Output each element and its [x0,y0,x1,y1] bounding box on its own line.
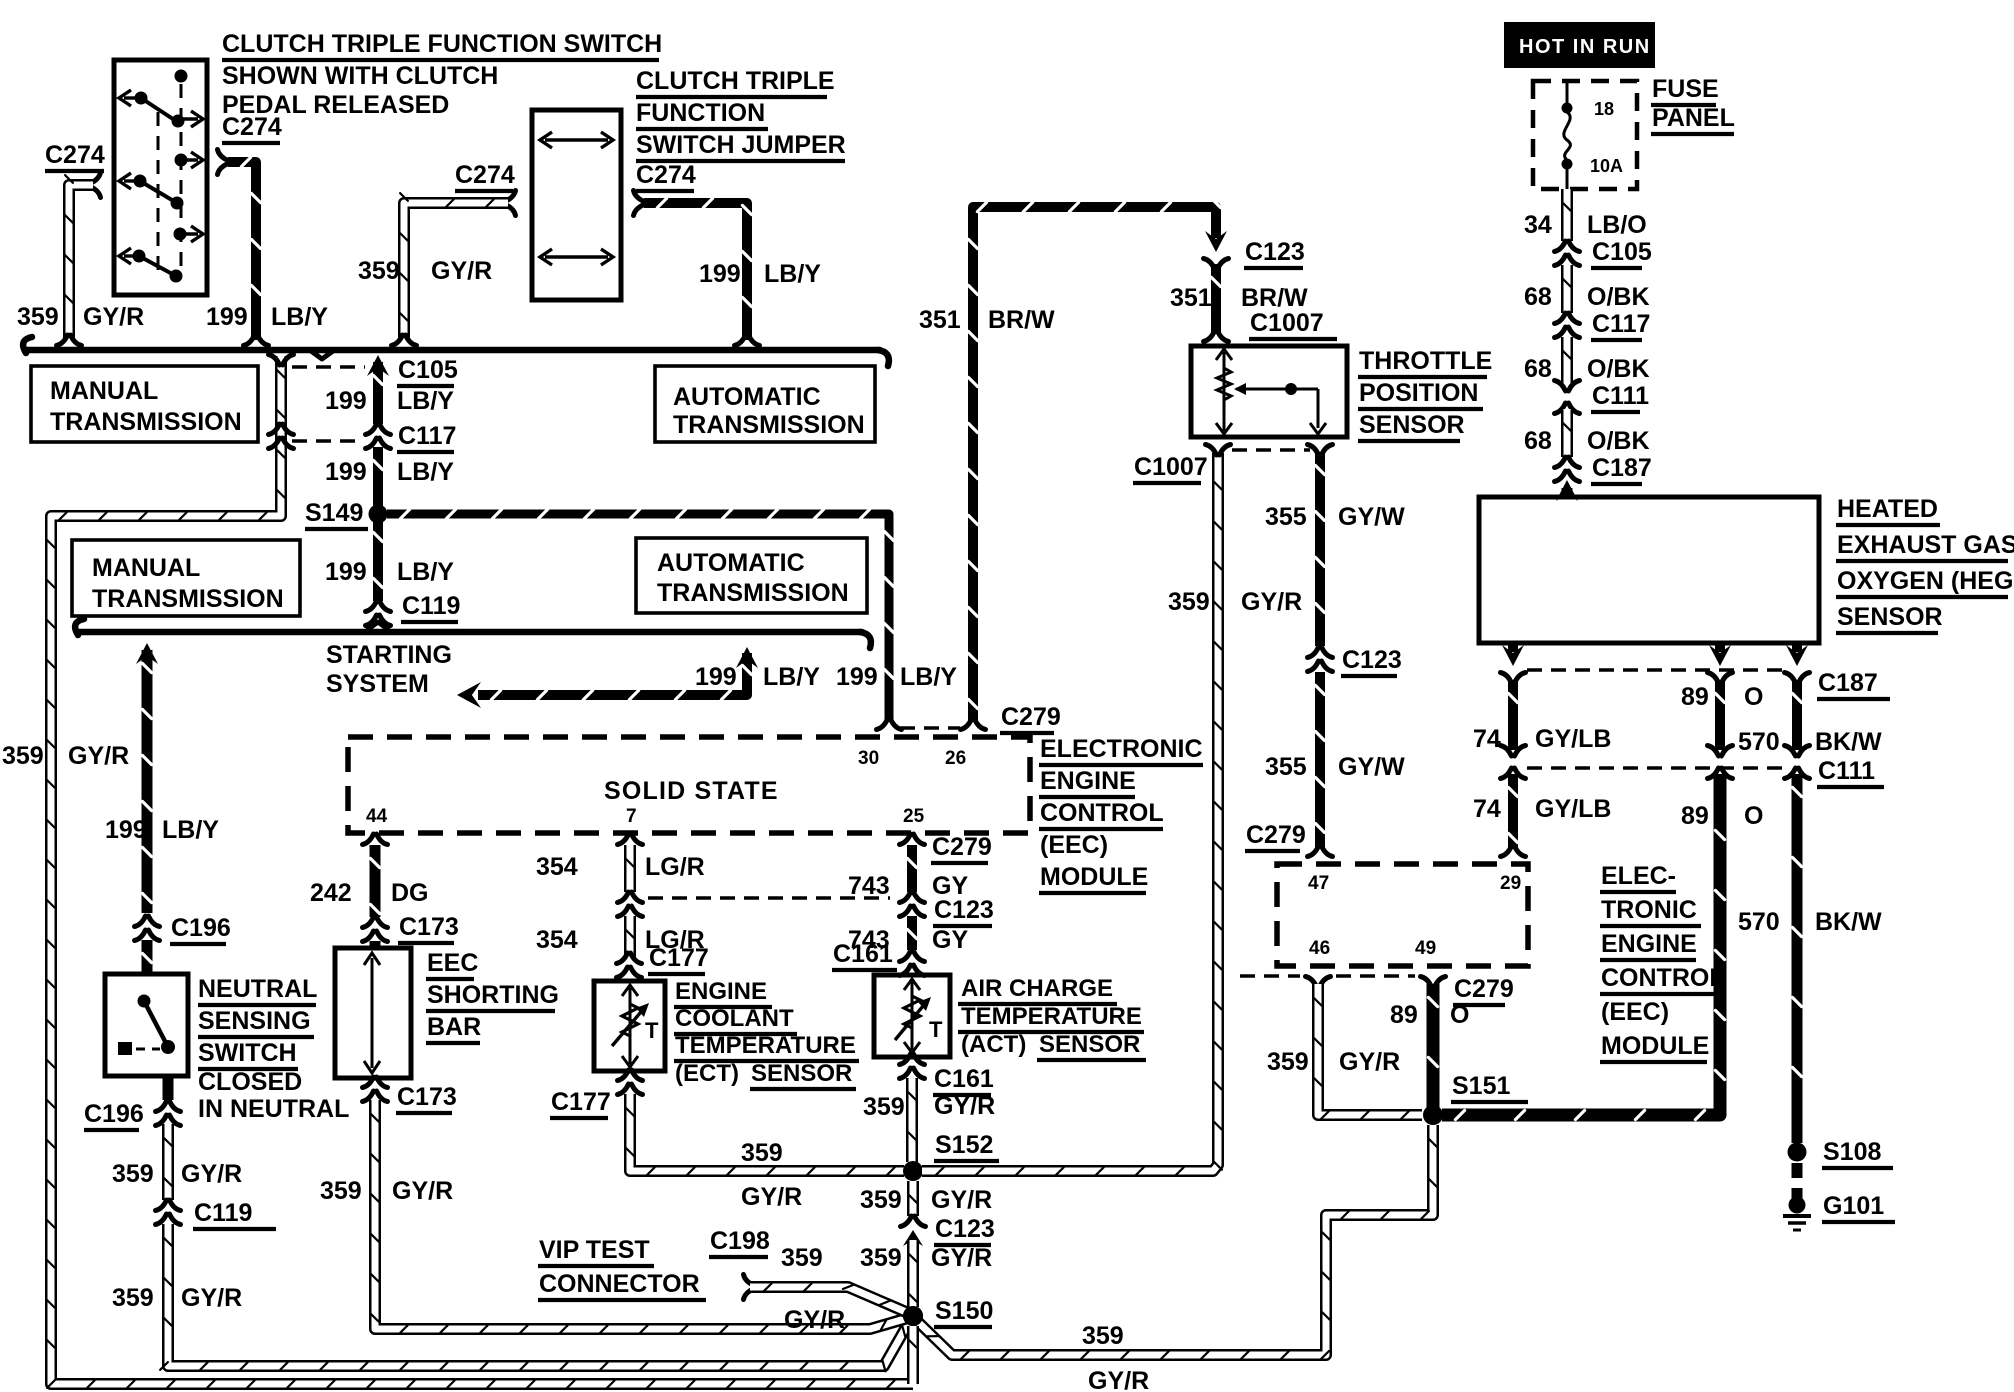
wire into HEGO [1562,488,1573,497]
dashed link C279 bottom [1240,974,1300,978]
connector at EEC pin 44 [363,834,388,845]
switch contact dot (180,234) [174,228,187,241]
svg-text:359: 359 [112,1284,154,1312]
label 199 switch [206,303,248,331]
svg-text:FUSE: FUSE [1652,75,1719,103]
label C274 jumper left [455,161,515,191]
label 68 c [1524,427,1552,455]
switch contact dot (141,98) [135,92,148,105]
bus 2 left end hook [75,619,84,635]
svg-text:TRANSMISSION: TRANSMISSION [657,579,849,607]
svg-text:C119: C119 [402,592,460,620]
EEC module solid state dashed body [348,737,1030,833]
bus 1 right end hook [878,350,889,366]
label 359 vip [781,1244,823,1272]
svg-text:LB/Y: LB/Y [162,816,219,844]
fuse panel dashed body [1533,81,1637,189]
text MANUAL 1 [50,377,158,405]
starting system wire [478,653,752,700]
svg-text:GY/R: GY/R [1339,1048,1400,1076]
svg-text:199: 199 [699,260,741,288]
label GY/R act [934,1092,995,1120]
svg-text:COOLANT: COOLANT [675,1005,794,1032]
wire 199 LB/Y to S149 [373,362,382,424]
svg-text:359: 359 [112,1160,154,1188]
label 743 a [848,872,890,900]
connector C123 tps signal [1308,647,1333,672]
switch contact dot (139,256) [133,250,146,263]
label 355 a [1265,503,1307,531]
text AUTOMATIC 1 [673,383,821,411]
text TEMPERATURE act [958,1003,1144,1032]
connector C1007 at TPS [1204,331,1229,342]
svg-text:TRANSMISSION: TRANSMISSION [50,408,242,436]
svg-text:S152: S152 [935,1131,993,1159]
text THROTTLE [1358,347,1492,377]
svg-text:46: 46 [1309,938,1330,959]
connector C196 lower [156,1101,181,1126]
svg-text:CONNECTOR: CONNECTOR [539,1270,700,1298]
wire 570 BK/W upper [1792,680,1801,750]
svg-text:THROTTLE: THROTTLE [1359,347,1492,375]
pin 30 [858,748,879,769]
svg-text:C173: C173 [397,1083,457,1111]
text SHORTING [426,981,559,1011]
svg-text:GY/R: GY/R [392,1177,453,1205]
wire 359 GY/R S152 to C1007 riser [922,453,1222,1175]
svg-text:242: 242 [310,879,352,907]
svg-text:355: 355 [1265,753,1307,781]
connector C177 lower [618,1070,643,1095]
label C105 chain [1591,238,1652,268]
label LG/R b [645,926,705,954]
label BK/W a [1815,728,1882,756]
splice S149 [369,505,388,524]
label C279 pin25 [931,833,992,863]
svg-text:TRANSMISSION: TRANSMISSION [92,585,284,613]
svg-text:GY/R: GY/R [83,303,144,331]
label BK/W b [1815,908,1882,936]
svg-text:GY/LB: GY/LB [1535,725,1611,753]
wire from neutral switch to C196 lower [163,1076,174,1100]
splice S152 [903,1161,923,1181]
svg-text:LB/Y: LB/Y [397,558,454,586]
label O/BK c [1587,427,1650,455]
svg-text:GY/R: GY/R [181,1160,242,1188]
label GY/R tps [1241,588,1302,616]
EEC module 2 dashed body [1277,864,1528,966]
connector C279 pin 26 [961,719,986,730]
label GY/R v2 [931,1244,992,1272]
EEC shorting bar body [335,948,411,1078]
neutral sensing switch body [105,974,188,1076]
label 570 b [1738,908,1780,936]
label GY/W b [1338,753,1405,781]
svg-text:HOT IN RUN: HOT IN RUN [1519,36,1651,58]
svg-text:GY/R: GY/R [931,1244,992,1272]
label 199 neutral [105,816,147,844]
svg-text:LB/Y: LB/Y [397,387,454,415]
svg-text:LG/R: LG/R [645,853,705,881]
svg-text:TRONIC: TRONIC [1601,896,1697,924]
text (EEC) eec2 [1601,998,1669,1026]
text AUTOMATIC 2 [657,549,805,577]
label 354 a [536,853,578,881]
svg-text:199: 199 [325,558,367,586]
svg-text:NEUTRAL: NEUTRAL [198,975,317,1003]
svg-text:SENSOR: SENSOR [1359,411,1465,439]
pin 47 [1308,873,1329,894]
svg-text:C123: C123 [1342,646,1402,674]
label 68 a [1524,283,1552,311]
svg-text:C279: C279 [1246,821,1306,849]
label 359 bottomrun [1082,1322,1124,1350]
connector C105 fuse chain [1555,241,1580,266]
text CONTROL eec1 [1039,799,1164,829]
label 354 b [536,926,578,954]
wire 359 GY/R S152 to C123 [909,1181,917,1216]
svg-text:359: 359 [741,1139,783,1167]
svg-text:743: 743 [848,872,890,900]
air charge temperature sensor body [874,975,950,1057]
switch left terminal arrow y=256 [124,254,140,257]
svg-text:(ACT): (ACT) [961,1031,1026,1058]
svg-text:T: T [929,1017,943,1042]
text SWITCH [198,1039,298,1069]
svg-text:O/BK: O/BK [1587,427,1650,455]
arrow HEGO pin right [1786,645,1808,666]
label 743 b [848,926,890,954]
svg-text:C117: C117 [398,422,456,450]
wire 68 O/BK a [1563,265,1571,313]
svg-text:O/BK: O/BK [1587,283,1650,311]
svg-text:C274: C274 [636,161,696,189]
label GY/R n2 [181,1284,242,1312]
connector C119 lower [156,1200,181,1225]
switch right terminal arrow y=119 [180,117,198,120]
wire 359 GY/R ACT to S152 [908,1078,916,1162]
fuse symbol [1566,81,1569,104]
label GY/R n1 [181,1160,242,1188]
label C1007 lower [1133,453,1208,483]
svg-text:ENGINE: ENGINE [1040,767,1136,795]
wire 359 GY/R pin46 to S151 [1314,984,1422,1119]
automatic transmission box 2 [636,538,867,613]
HEGO pin stub middle [1715,643,1725,652]
text TRANSMISSION auto1 [673,411,865,439]
svg-text:C123: C123 [935,1215,995,1243]
switch moving contact 3 [139,256,176,276]
text MANUAL 2 [92,554,200,582]
pin 46 [1309,938,1330,959]
wire 351 BR/W riser [968,198,1220,722]
label 355 b [1265,753,1307,781]
svg-text:199: 199 [695,663,737,691]
pin 7 [626,806,637,827]
text EXHAUST GAS [1836,531,2014,561]
svg-text:25: 25 [903,806,925,827]
label C161 upper [832,940,897,970]
text HEATED [1836,495,1940,525]
label S150 [934,1297,993,1327]
connector C198 [744,1275,755,1300]
label C177 lower [550,1088,611,1118]
wire 359 GY/R ECT to S152 [626,1094,904,1175]
label 89 s151 [1390,1001,1418,1029]
label 199 c [325,558,367,586]
pin 26 [945,748,966,769]
label 199 d [836,663,878,691]
connector C187 left lower half [1501,673,1526,684]
svg-text:C279: C279 [1454,975,1514,1003]
dashed link C117 [292,439,361,443]
label C123 act [933,896,994,926]
wire 199 LB/Y manual transmission branch [47,356,913,1388]
svg-text:ELECTRONIC: ELECTRONIC [1040,735,1203,763]
label GY/LB a [1535,725,1611,753]
label GY a [932,872,968,900]
text OXYGEN (HEG [1836,567,2013,597]
text (EEC) eec1 [1040,831,1108,859]
neutral switch dashed actuator line [136,1048,160,1051]
svg-text:AIR CHARGE: AIR CHARGE [961,975,1113,1002]
svg-text:C1007: C1007 [1250,309,1324,337]
manual/automatic transmission bus 1 [26,347,880,354]
label C187 hego [1817,669,1890,699]
label 34 [1524,211,1552,239]
connector on manual branch at C117 level [269,424,294,449]
svg-text:PANEL: PANEL [1652,104,1735,132]
wire 242 DG into shorting bar [370,941,381,948]
starting system up arrow [736,647,758,668]
svg-text:EXHAUST GAS: EXHAUST GAS [1837,531,2014,559]
svg-text:ELEC-: ELEC- [1601,862,1676,890]
label S151 [1451,1072,1528,1102]
svg-text:199: 199 [325,387,367,415]
label 359 v1 [860,1186,902,1214]
svg-text:TEMPERATURE: TEMPERATURE [675,1032,856,1059]
wire 199 LB/Y to C196 [142,650,151,913]
svg-text:C177: C177 [551,1088,611,1116]
label FUNCTION (jumper) [636,99,768,129]
svg-text:351: 351 [1170,284,1212,312]
svg-text:SWITCH: SWITCH [198,1039,297,1067]
wire 743 GY lower [907,916,916,950]
label 359 left [17,303,59,331]
text STARTING [326,641,452,669]
text HOT IN RUN [1519,36,1651,58]
bus 2 cusp at C119 [367,622,389,630]
svg-text:LB/Y: LB/Y [764,260,821,288]
text SYSTEM [326,670,429,698]
label C119 lower [193,1199,276,1229]
connector C279 pin 30 [877,719,902,730]
wire 359 GY/R neutral switch to S150 [164,1124,172,1200]
connector C279 pin 47 [1308,846,1333,857]
label 359 n1 [112,1160,154,1188]
svg-text:SOLID STATE: SOLID STATE [604,777,779,805]
connector C187 right lower half [1785,673,1810,684]
svg-text:C161: C161 [833,940,893,968]
pin 49 [1415,938,1436,959]
svg-text:(ECT): (ECT) [675,1060,739,1087]
svg-text:C1007: C1007 [1134,453,1208,481]
label 359 v2 [860,1244,902,1272]
text (ECT) [675,1060,739,1087]
label C279 pin47 [1245,821,1306,851]
label C119 [401,592,460,622]
connector C274 switch left side [90,173,101,198]
text CONTROL eec2 [1600,964,1725,994]
HEGO pin stub right [1792,643,1802,652]
svg-text:C177: C177 [649,944,709,972]
svg-text:74: 74 [1473,795,1501,823]
label 351 a [919,306,961,334]
svg-text:SENSOR: SENSOR [1039,1031,1140,1058]
svg-text:GY/R: GY/R [431,257,492,285]
automatic transmission box 1 [655,366,875,442]
label S152 [934,1131,999,1161]
label DG [391,879,429,907]
text POSITION [1358,379,1483,409]
svg-text:GY/R: GY/R [741,1183,802,1211]
connector C279 pin 29 [1501,846,1526,857]
starting system bus 2 [78,629,862,636]
svg-text:O/BK: O/BK [1587,355,1650,383]
text MODULE eec2 [1600,1032,1709,1062]
svg-text:(EEC): (EEC) [1601,998,1669,1026]
svg-text:C279: C279 [932,833,992,861]
svg-text:LB/Y: LB/Y [397,458,454,486]
connector C1007 below TPS right pin [1308,445,1333,456]
svg-text:C279: C279 [1001,703,1061,731]
wire 359 GY/R S151 to S150 [916,1125,1437,1359]
connector C119 [366,601,391,626]
svg-text:C111: C111 [1592,382,1649,410]
svg-text:CONTROL: CONTROL [1601,964,1725,992]
svg-text:GY/R: GY/R [181,1284,242,1312]
label CLUTCH TRIPLE (jumper) [636,67,835,97]
connector C123 TPS feed lower half [1204,259,1229,270]
label 74 a [1473,725,1501,753]
ECT T letter [645,1018,659,1043]
wire 199 LB/Y jumper to bus [644,198,752,340]
engine coolant temperature sensor body [594,981,665,1071]
label C1007 top [1249,309,1337,339]
wire 359 GY/R C123 to S150 [909,1240,917,1307]
text CLOSED [198,1068,302,1096]
svg-text:7: 7 [626,806,637,827]
svg-text:C196: C196 [171,914,231,942]
svg-text:354: 354 [536,926,578,954]
label 74 b [1473,795,1501,823]
label C198 [709,1227,770,1257]
connector C173 lower [363,1077,388,1102]
text FUSE [1651,75,1719,105]
ground symbol G101 [1783,1214,1811,1218]
connector C111 74 wire [1501,746,1526,779]
label G101 [1822,1192,1895,1222]
connector C173 upper [363,917,388,942]
splice S108 [1788,1143,1807,1162]
wire 89 O pin49 to S151 [1428,984,1437,1108]
text SENSOR tps [1358,411,1465,441]
svg-text:TRANSMISSION: TRANSMISSION [673,411,865,439]
svg-text:BK/W: BK/W [1815,728,1882,756]
switch right terminal arrow y=234 [180,232,198,235]
neutral switch fixed terminal square [118,1042,132,1055]
label C161 lower [933,1065,994,1095]
HEGO pin stub left [1508,643,1518,652]
svg-text:355: 355 [1265,503,1307,531]
svg-text:DG: DG [391,879,429,907]
svg-text:199: 199 [325,458,367,486]
label C177 upper [648,944,709,974]
arrow 199 LB/Y at bus 2 [136,643,158,664]
connector C196 upper [135,916,160,941]
text VIP TEST [538,1236,654,1266]
HOT IN RUN box [1504,22,1655,68]
svg-text:CLUTCH TRIPLE: CLUTCH TRIPLE [636,67,835,95]
svg-text:GY/R: GY/R [931,1186,992,1214]
connector C117 fuse chain [1555,313,1580,338]
text PANEL [1651,104,1735,134]
svg-text:LB/Y: LB/Y [763,663,820,691]
label O/BK b [1587,355,1650,383]
switch right terminal arrow y=160 [181,158,198,161]
label LB/Y d [900,663,957,691]
wire 89 O upper [1715,680,1724,750]
svg-text:C173: C173 [399,913,459,941]
label 199 start [695,663,737,691]
wire 199 LB/Y S149 to C119 [373,519,382,601]
label S149 [305,499,368,529]
switch contact dot (178,121) [172,115,185,128]
svg-text:359: 359 [781,1244,823,1272]
dashed link C111 hego [1527,766,1786,770]
text TRONIC [1600,896,1701,926]
text ENGINE [674,978,772,1007]
switch left terminal arrow y=181 [124,179,140,182]
jumper internal double arrow y=140 [545,138,608,141]
connector C111 89 wire [1708,746,1733,779]
svg-text:C187: C187 [1818,669,1878,697]
bus 1 left end hook [23,337,32,353]
bus 1 junction cusp [311,351,333,359]
svg-text:LB/O: LB/O [1587,211,1647,239]
switch contact dot (140,181) [134,175,147,188]
label 359 ect [741,1139,783,1167]
wire 199 LB/Y from S149 to EEC pin 30 [387,509,894,720]
wire 743 GY upper [907,845,916,892]
svg-text:SENSING: SENSING [198,1007,311,1035]
svg-text:C274: C274 [45,141,105,169]
text EEC [426,949,478,979]
svg-text:O: O [1744,683,1763,711]
svg-text:STARTING: STARTING [326,641,452,669]
svg-text:10A: 10A [1590,156,1623,176]
pin 44 [366,806,388,827]
foot manual branch at bus 1 [269,355,294,366]
svg-text:CLOSED: CLOSED [198,1068,302,1096]
wire 199 LB/Y C117 to S149 [373,447,382,509]
svg-text:T: T [645,1018,659,1043]
svg-text:VIP TEST: VIP TEST [539,1236,650,1264]
foot of wire 359 jumper on bus [392,335,417,346]
svg-text:SWITCH JUMPER: SWITCH JUMPER [636,131,846,159]
label C173 upper [398,913,459,943]
label LB/Y a [397,387,454,415]
